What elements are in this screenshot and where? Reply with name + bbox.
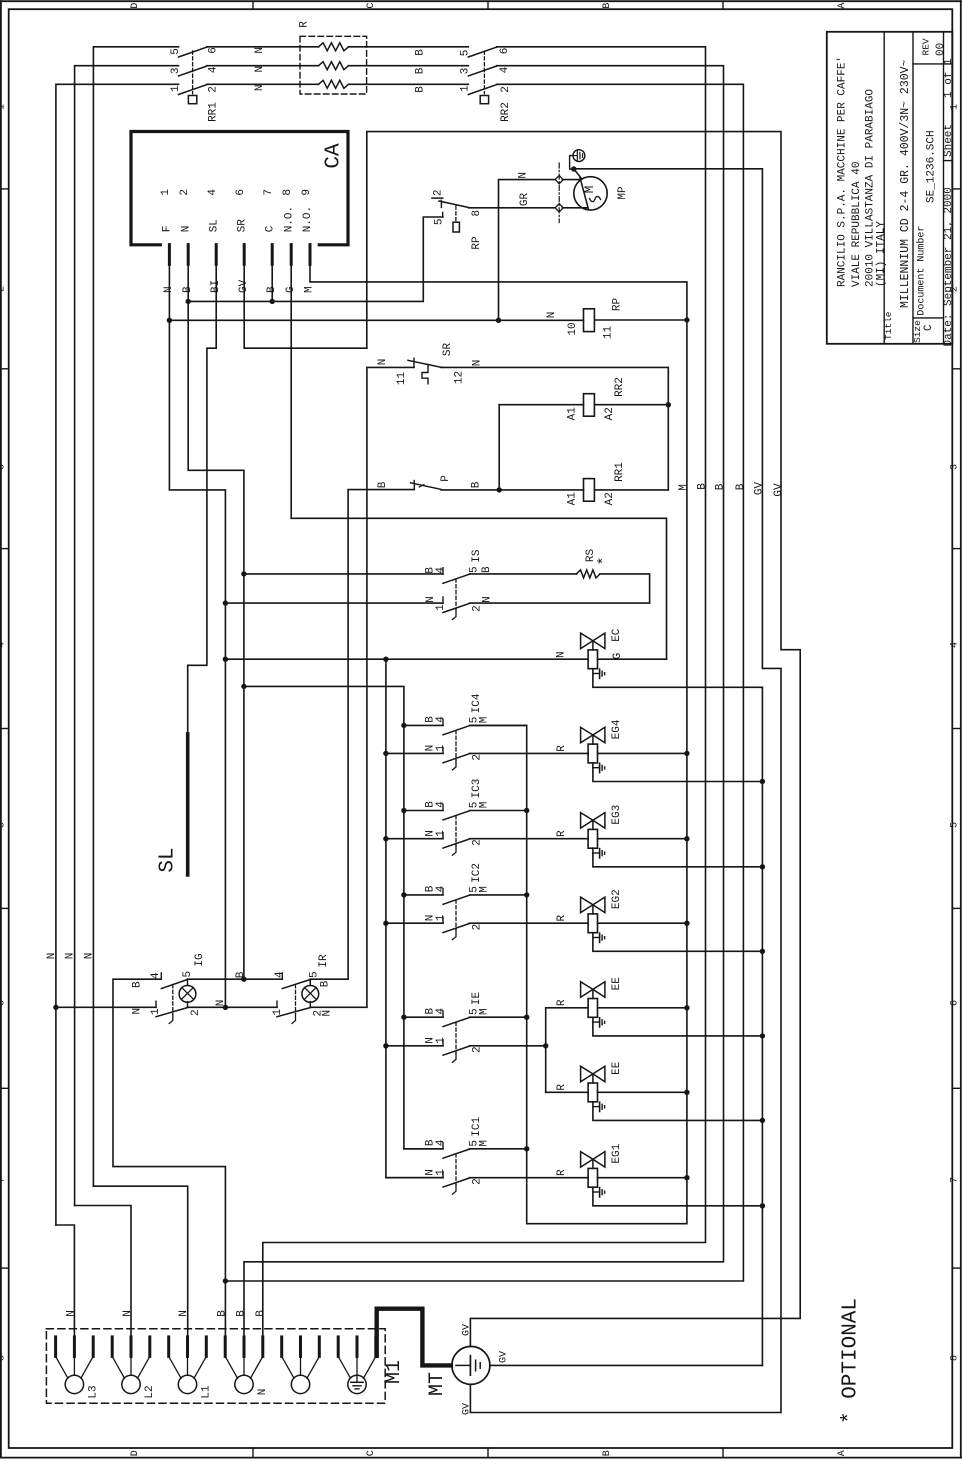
svg-text:N: N bbox=[122, 1310, 134, 1317]
svg-text:F: F bbox=[162, 226, 174, 233]
svg-text:R: R bbox=[556, 830, 568, 837]
svg-text:EC: EC bbox=[611, 628, 623, 642]
svg-text:4: 4 bbox=[499, 66, 511, 73]
valve EG4 coil wire bbox=[588, 752, 687, 754]
valve EG3 coil wire bbox=[588, 838, 687, 840]
wire IR lamp feed up to switch P bbox=[348, 490, 414, 980]
junction dot lamp row on L3 wire bbox=[53, 1005, 58, 1010]
switch P contact bbox=[411, 481, 442, 490]
svg-text:1: 1 bbox=[435, 1169, 447, 1176]
svg-text:3: 3 bbox=[0, 464, 7, 470]
svg-text:1: 1 bbox=[150, 1008, 162, 1015]
wire IC4 pin 5 to net M bus bbox=[470, 724, 527, 726]
wire heater row A N-side (L1 feed) bbox=[93, 47, 178, 1186]
thick bonding wire M1 PE to MT bbox=[377, 1309, 451, 1366]
zone ticks bottom edge bbox=[253, 1448, 723, 1458]
wire IG pin2 to IR pin1 segment bbox=[188, 1006, 278, 1008]
wire IC1 pin 4 from net B bbox=[404, 1148, 443, 1150]
connector diamonds on motor leads bbox=[555, 175, 563, 212]
svg-text:C: C bbox=[264, 225, 276, 232]
valve EE earth symbol bbox=[593, 1102, 605, 1111]
wire IS pin 4 from net B bbox=[244, 573, 443, 575]
valve EG4 earth symbol bbox=[593, 763, 605, 772]
wire IC4 pin 1 from net N bbox=[386, 752, 443, 754]
svg-text:B: B bbox=[414, 86, 426, 93]
junction dot EG1 ground on GV bbox=[760, 1203, 765, 1208]
svg-text:IC3: IC3 bbox=[471, 779, 483, 799]
svg-text:GV: GV bbox=[499, 1351, 510, 1363]
svg-text:R: R bbox=[556, 915, 568, 922]
svg-text:B: B bbox=[481, 566, 493, 573]
svg-text:B: B bbox=[414, 49, 426, 56]
svg-text:L1: L1 bbox=[200, 1385, 212, 1399]
svg-text:N: N bbox=[131, 1008, 143, 1015]
junction dot IC2 pin1 bbox=[383, 921, 388, 926]
switch IC1 two-pole bbox=[443, 1143, 470, 1195]
RR2 actuator dashed link and box bbox=[480, 51, 488, 104]
relay contact RR1 pole 1-2 bbox=[179, 85, 207, 95]
svg-text:11: 11 bbox=[396, 372, 408, 386]
svg-text:A1: A1 bbox=[566, 407, 578, 421]
svg-text:4: 4 bbox=[274, 971, 286, 978]
wire IC3 pin 2 to valve EG3 bbox=[470, 838, 589, 840]
wire motor N lead to net N bbox=[499, 180, 557, 321]
relay coil RR2 bbox=[499, 394, 668, 417]
junction dot net N on lamp row bbox=[223, 1005, 228, 1010]
switch IS two-pole bbox=[443, 568, 470, 620]
zone numbers left edge 1-8 bbox=[0, 104, 7, 1361]
svg-text:1: 1 bbox=[435, 1037, 447, 1044]
zone numbers right edge 1-8 bbox=[949, 104, 960, 1361]
labels B wire colours right-side verticals bbox=[696, 483, 747, 491]
svg-text:N: N bbox=[65, 953, 77, 960]
junction dot EG2 ground on GV bbox=[760, 949, 765, 954]
svg-text:(MI) ITALY: (MI) ITALY bbox=[875, 221, 887, 287]
svg-text:6: 6 bbox=[949, 1000, 960, 1006]
svg-text:RR2: RR2 bbox=[500, 102, 512, 122]
svg-text:EG1: EG1 bbox=[611, 1143, 623, 1163]
svg-text:5: 5 bbox=[949, 822, 960, 828]
resistor R element row B bbox=[319, 62, 349, 70]
terminal M1-3 (L1) bbox=[169, 1337, 207, 1394]
wire EE feed bottom corner bbox=[546, 1091, 588, 1093]
junction dot IC4 pin1 bbox=[383, 751, 388, 756]
svg-text:B: B bbox=[602, 1450, 613, 1456]
wire IC1 pin 5 to net M bus bbox=[470, 1148, 527, 1150]
svg-text:2: 2 bbox=[471, 754, 483, 761]
svg-text:1: 1 bbox=[435, 604, 447, 611]
labels IS pins B 4 5 B N 1 2 N bbox=[424, 566, 493, 612]
svg-text:1: 1 bbox=[0, 104, 7, 110]
motor MP circle bbox=[574, 177, 607, 210]
svg-text:3: 3 bbox=[949, 464, 960, 470]
junction dot B branch bbox=[241, 684, 246, 689]
solenoid valve EE bbox=[581, 1066, 605, 1102]
wire IR pin 5 up to switch P bbox=[310, 978, 348, 980]
labels N N N left verticals bbox=[46, 953, 96, 960]
wire IS pin 1 from net N bbox=[225, 602, 443, 604]
svg-text:Document Number: Document Number bbox=[915, 226, 927, 316]
wire heater row C N-side (L3 feed) bbox=[56, 84, 179, 1225]
labels SR 11 12 N N bbox=[377, 343, 484, 386]
svg-text:5: 5 bbox=[170, 48, 182, 55]
wire EC ground turning down as GV collector bbox=[761, 687, 763, 1365]
labels IC3 pins bbox=[424, 801, 490, 846]
svg-text:2: 2 bbox=[471, 924, 483, 931]
wire earth circle to motor top junction bbox=[570, 156, 582, 179]
wire heater row B middle segment bbox=[207, 65, 319, 67]
junction dots CA area bbox=[167, 299, 275, 323]
svg-text:2: 2 bbox=[0, 286, 7, 292]
svg-text:12: 12 bbox=[453, 371, 465, 384]
svg-text:6: 6 bbox=[235, 189, 247, 196]
svg-text:1: 1 bbox=[272, 1009, 284, 1016]
labels GV right verticals bbox=[753, 482, 785, 497]
resistor RS bbox=[577, 570, 601, 578]
svg-text:2: 2 bbox=[207, 86, 219, 93]
svg-text:SR: SR bbox=[442, 343, 454, 357]
svg-text:3: 3 bbox=[459, 68, 471, 75]
connector CA body bbox=[131, 132, 348, 245]
wire IC4 pin 4 from net B bbox=[404, 724, 443, 726]
valve EE coil wire bbox=[588, 1007, 687, 1009]
wire heater row B to RR2 bbox=[349, 65, 469, 67]
svg-text:4: 4 bbox=[435, 801, 447, 808]
solenoid valve EG2 bbox=[581, 897, 605, 933]
wire net B from CA pin N down, jog to B column bbox=[188, 264, 244, 979]
svg-text:2: 2 bbox=[471, 839, 483, 846]
svg-text:B: B bbox=[470, 481, 482, 488]
junction dot IC1 pin5 on M bus bbox=[524, 1146, 529, 1151]
wire IG pin 4 feed down to M1 bbox=[113, 979, 225, 1337]
svg-text:Sheet: Sheet bbox=[943, 124, 955, 157]
svg-text:C: C bbox=[923, 324, 935, 331]
svg-text:GV: GV bbox=[462, 1403, 473, 1415]
heating element group R dashed box bbox=[300, 36, 367, 94]
earth terminal MT circle bbox=[452, 1346, 490, 1384]
svg-text:M: M bbox=[678, 484, 690, 491]
switch IC2 two-pole bbox=[443, 889, 470, 940]
valve EG3 case ground wire to GV bbox=[593, 848, 763, 867]
svg-text:B: B bbox=[216, 1310, 228, 1317]
svg-text:D: D bbox=[130, 1450, 141, 1456]
junction dots M line at valves bbox=[0, 0, 1, 1]
junction dot IS pin4 on net B bbox=[241, 571, 246, 576]
labels IC1 pins bbox=[424, 1139, 490, 1185]
svg-text:6: 6 bbox=[207, 47, 219, 54]
svg-text:B: B bbox=[696, 483, 708, 490]
pressure switch RP contact bbox=[432, 189, 469, 225]
wire IC1 pin 2 to valve EG1 bbox=[470, 1177, 589, 1179]
junction dot P switch to RR1 bbox=[497, 487, 502, 492]
svg-text:8: 8 bbox=[471, 210, 483, 217]
terminal M1-1 (L3) bbox=[56, 1337, 94, 1394]
relay contact RR2 pole 3-4 bbox=[468, 66, 496, 76]
svg-text:N: N bbox=[321, 1010, 333, 1017]
svg-text:N: N bbox=[425, 596, 437, 603]
labels IR pins bbox=[272, 971, 334, 1017]
svg-text:R: R bbox=[298, 21, 310, 28]
junction dot IC3 pin5 on M bus bbox=[524, 808, 529, 813]
wire IC3 pin 5 to net M bus bbox=[470, 810, 527, 812]
RP actuator dashed link and box bbox=[453, 206, 459, 232]
wire heater row B N-side (L2 feed) bbox=[75, 66, 179, 1206]
svg-text:M1: M1 bbox=[383, 1360, 406, 1384]
level probe SL bbox=[186, 734, 190, 875]
svg-text:B: B bbox=[602, 3, 613, 9]
junction dot EG4 output on net M bbox=[684, 751, 689, 756]
svg-text:REV: REV bbox=[920, 38, 931, 55]
svg-text:1: 1 bbox=[435, 914, 447, 921]
svg-text:4: 4 bbox=[150, 972, 162, 979]
earth symbol inside PE terminal bbox=[351, 1375, 363, 1389]
svg-text:MP: MP bbox=[617, 186, 629, 200]
wire L2 jog to terminal bbox=[75, 1206, 131, 1337]
svg-text:4: 4 bbox=[949, 642, 960, 648]
svg-text:7: 7 bbox=[949, 1177, 960, 1183]
wire net M from CA pin 9 across and down right side bbox=[310, 264, 687, 1223]
valve EE case ground wire to GV bbox=[593, 1102, 763, 1121]
wire IE pin 5 to net M bus bbox=[470, 1016, 527, 1018]
svg-text:IC1: IC1 bbox=[471, 1117, 483, 1137]
svg-text:M: M bbox=[478, 1008, 490, 1015]
svg-text:N: N bbox=[65, 1310, 77, 1317]
wire heater row A middle segment bbox=[207, 46, 319, 48]
svg-text:MILLENNIUM CD 2-4 GR. 400V/3N~: MILLENNIUM CD 2-4 GR. 400V/3N~ 230V~ bbox=[899, 59, 912, 308]
wire heater row C to RR2 bbox=[349, 83, 469, 85]
junction dot EG1 output on net M bbox=[684, 1175, 689, 1180]
wire heater row C B-side down to M1 N terminal bbox=[225, 84, 743, 1281]
svg-text:B: B bbox=[131, 981, 143, 988]
switch IC3 two-pole bbox=[443, 804, 470, 855]
wire L1 jog to terminal bbox=[93, 1186, 187, 1337]
wire IC2 pin 5 to net M bus bbox=[470, 894, 527, 896]
wire IS pin 5 to resistor RS bbox=[470, 573, 577, 575]
junction dot EG4 ground on GV bbox=[760, 779, 765, 784]
pin name labels CA F N SL SR C N.O. N.O. bbox=[162, 206, 315, 232]
svg-text:L3: L3 bbox=[87, 1385, 99, 1398]
wire GV motor earth down to MT bottom bbox=[470, 169, 781, 1413]
svg-text:C: C bbox=[366, 3, 377, 9]
wire IR pin 4 from net B bbox=[244, 978, 282, 980]
svg-text:2: 2 bbox=[190, 1009, 202, 1016]
svg-text:GV: GV bbox=[753, 482, 765, 496]
junction dot IE pin5 on M bus bbox=[524, 1015, 529, 1020]
wire IC1 pin 1 from net N bbox=[386, 1177, 443, 1179]
svg-text:N: N bbox=[254, 84, 266, 91]
svg-text:IR: IR bbox=[318, 954, 330, 968]
solenoid valve EG1 bbox=[581, 1152, 605, 1188]
svg-text:5: 5 bbox=[308, 971, 320, 978]
svg-text:7: 7 bbox=[263, 189, 275, 196]
svg-text:EE: EE bbox=[611, 977, 623, 991]
connector CA pin stubs bbox=[169, 245, 310, 265]
svg-text:*: * bbox=[596, 556, 613, 565]
resistor R element row C bbox=[319, 80, 349, 88]
svg-text:B: B bbox=[235, 1310, 247, 1317]
wire EE feed vertical bbox=[545, 1008, 547, 1093]
svg-text:2: 2 bbox=[471, 1178, 483, 1185]
svg-text:8: 8 bbox=[282, 189, 294, 196]
svg-text:N: N bbox=[257, 1389, 269, 1396]
valve EC earth symbol bbox=[593, 669, 605, 678]
svg-text:N: N bbox=[377, 359, 389, 366]
zone ticks left edge bbox=[1, 189, 9, 1268]
wire GV earth loop MT top to CA SR bbox=[367, 132, 800, 1347]
svg-text:4: 4 bbox=[207, 189, 219, 196]
valve EG3 earth symbol bbox=[593, 849, 605, 858]
svg-text:B: B bbox=[414, 67, 426, 74]
labels B wire colours heater rows bbox=[414, 49, 426, 93]
svg-text:1: 1 bbox=[170, 85, 182, 92]
svg-text:MT: MT bbox=[426, 1372, 449, 1396]
svg-text:IG: IG bbox=[194, 953, 206, 966]
svg-text:9: 9 bbox=[301, 189, 313, 196]
svg-text:RR1: RR1 bbox=[207, 102, 219, 122]
svg-text:3: 3 bbox=[170, 67, 182, 74]
svg-text:4: 4 bbox=[0, 642, 7, 648]
svg-text:Title: Title bbox=[883, 311, 894, 340]
svg-text:2: 2 bbox=[471, 605, 483, 612]
svg-text:B: B bbox=[377, 481, 389, 488]
wire net N horizontal CA pin F to relay RP coil bbox=[169, 319, 583, 321]
svg-text:RR1: RR1 bbox=[614, 462, 626, 482]
resistor R element row A bbox=[319, 43, 349, 51]
valve EG1 earth symbol bbox=[593, 1188, 605, 1197]
terminal M1-2 (L2) bbox=[112, 1337, 150, 1394]
valve EE coil wire bbox=[588, 1091, 687, 1093]
zone letters top edge D C B A bbox=[130, 3, 848, 9]
svg-text:5: 5 bbox=[0, 822, 7, 828]
valve EG2 case ground wire to GV bbox=[593, 933, 763, 952]
svg-text:R: R bbox=[556, 1084, 568, 1091]
junction dot IC4 pin4 bbox=[401, 723, 406, 728]
svg-text:B: B bbox=[714, 483, 726, 490]
wire SR pin 12 to relay RR2 coil return bbox=[441, 367, 668, 404]
svg-text:1: 1 bbox=[160, 189, 172, 196]
junction dot EE2 ground on GV bbox=[760, 1118, 765, 1123]
svg-text:SL: SL bbox=[157, 847, 180, 872]
svg-text:CA: CA bbox=[323, 143, 346, 169]
junction dot IE pin4 bbox=[401, 1015, 406, 1020]
junction dot EG2 output on net M bbox=[684, 921, 689, 926]
junction dot EE1 output on net M bbox=[684, 1005, 689, 1010]
terminal M1-6 (PE) bbox=[338, 1337, 376, 1394]
junction dot IC2 pin4 bbox=[401, 892, 406, 897]
svg-text:N: N bbox=[517, 172, 529, 179]
lamp switch IR bbox=[277, 973, 310, 1024]
wire RS return loop to IS pin 2 bbox=[470, 574, 650, 603]
labels N wire colours heater rows bbox=[254, 47, 266, 91]
svg-text:L2: L2 bbox=[144, 1385, 156, 1398]
wire net B branch to coffee switch bus bbox=[244, 686, 443, 1148]
solenoid valve EG3 bbox=[581, 813, 605, 849]
svg-text:* OPTIONAL: * OPTIONAL bbox=[840, 1298, 863, 1424]
label M~ inside motor bbox=[583, 186, 601, 202]
svg-text:B: B bbox=[255, 1310, 267, 1317]
switch IC4 two-pole bbox=[443, 719, 470, 770]
terminal M1-4 (N) bbox=[225, 1337, 263, 1394]
svg-text:VIALE REPUBBLICA 40: VIALE REPUBBLICA 40 bbox=[851, 162, 863, 287]
svg-text:N: N bbox=[254, 47, 266, 54]
labels IE pins bbox=[424, 1008, 490, 1053]
svg-text:G: G bbox=[612, 653, 624, 660]
junction dot heater row C return on lamp feed bbox=[223, 1278, 228, 1283]
dash-dot connector line bbox=[558, 163, 560, 223]
svg-text:4: 4 bbox=[207, 66, 219, 73]
wire IC2 pin 2 to valve EG2 bbox=[470, 922, 589, 924]
wire heater row A B-side down to M1 N terminal bbox=[263, 47, 706, 1337]
labels GV at MT bbox=[462, 1324, 510, 1415]
svg-text:6: 6 bbox=[0, 1000, 7, 1006]
junction dot EG3 ground on GV bbox=[760, 864, 765, 869]
wire IC4 pin 2 to valve EG4 bbox=[470, 752, 589, 754]
svg-text:4: 4 bbox=[435, 716, 447, 723]
svg-text:N: N bbox=[83, 953, 95, 960]
valve EE case ground wire to GV bbox=[593, 1017, 763, 1036]
lamp switch IG bbox=[156, 973, 188, 1024]
pin labels RR1 contacts bbox=[170, 47, 220, 93]
svg-text:A: A bbox=[837, 3, 848, 9]
RR1 actuator dashed link and box bbox=[188, 51, 196, 104]
svg-text:SR: SR bbox=[236, 219, 248, 233]
junction dot IS pin1 on net N bbox=[223, 600, 228, 605]
svg-text:1: 1 bbox=[435, 830, 447, 837]
wire IC2 pin 4 from net B bbox=[404, 894, 443, 896]
zone ticks top edge bbox=[253, 1, 723, 9]
svg-text:SL: SL bbox=[208, 219, 220, 232]
wire colour labels above M1 bbox=[65, 1310, 267, 1317]
svg-text:N: N bbox=[254, 66, 266, 73]
junction dot IE pin2 on EE feed bbox=[543, 1043, 548, 1048]
valve EG4 case ground wire to GV bbox=[593, 763, 763, 782]
svg-text:8: 8 bbox=[949, 1355, 960, 1361]
svg-text:B: B bbox=[735, 483, 747, 490]
pin labels RR2 contacts bbox=[459, 48, 512, 93]
wire IE pin 2 to EE valves feed bbox=[470, 1045, 546, 1047]
svg-text:7: 7 bbox=[0, 1177, 7, 1183]
labels relay RP coil N 10 11 RP bbox=[546, 298, 624, 340]
wire EE feed top corner bbox=[546, 1007, 588, 1009]
svg-text:N: N bbox=[46, 953, 58, 960]
svg-text:A: A bbox=[837, 1450, 848, 1456]
valve EG2 coil wire bbox=[588, 922, 687, 924]
labels IC4 pins bbox=[424, 716, 490, 761]
wire L3 jog to terminal bbox=[56, 1225, 75, 1337]
svg-text:5: 5 bbox=[459, 50, 471, 57]
svg-text:2: 2 bbox=[433, 189, 445, 196]
svg-text:M: M bbox=[478, 717, 490, 724]
wire IR pin 2 to SR column bbox=[310, 1006, 367, 1008]
wire IC3 pin 1 from net N bbox=[386, 838, 443, 840]
wire RP pin 8 to motor connector bbox=[469, 207, 557, 209]
solenoid valve EE bbox=[581, 982, 605, 1018]
svg-text:1: 1 bbox=[949, 104, 960, 110]
junction dot IC3 pin1 bbox=[383, 836, 388, 841]
relay coil RR1 bbox=[499, 405, 668, 502]
svg-text:4: 4 bbox=[435, 1139, 447, 1146]
junction dot EE2 output on net M bbox=[684, 1090, 689, 1095]
svg-text:2: 2 bbox=[500, 86, 512, 93]
svg-text:A1: A1 bbox=[566, 492, 578, 506]
svg-text:A2: A2 bbox=[604, 492, 616, 505]
labels P and B B bbox=[377, 475, 482, 489]
solenoid valve EC bbox=[581, 633, 605, 669]
svg-text:P: P bbox=[440, 475, 452, 482]
svg-text:IS: IS bbox=[471, 549, 483, 563]
svg-text:1: 1 bbox=[459, 85, 471, 92]
svg-text:N: N bbox=[481, 596, 493, 603]
